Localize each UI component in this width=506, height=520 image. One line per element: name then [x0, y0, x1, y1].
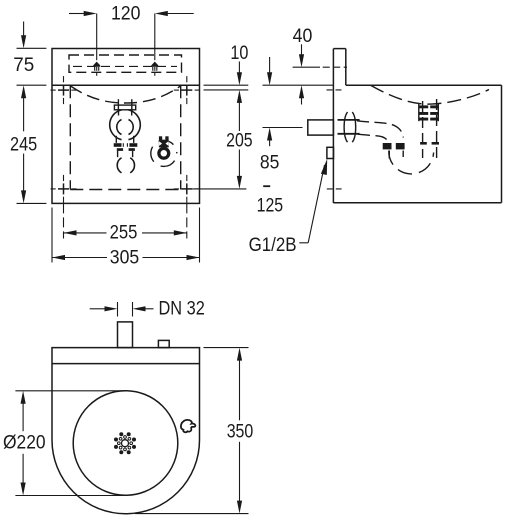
dimension DN32: arrows: [90, 308, 105, 310]
front view: inlet valve top body filled: [159, 136, 162, 140]
dimension 205: lower line and arrow: [238, 150, 240, 177]
side view: trap inlet lower hidden curve: [358, 134, 390, 146]
svg-text:10: 10: [230, 43, 248, 64]
front view: trap bottom arcs: [117, 158, 134, 173]
bottom view: bowl circle Ø220: [73, 391, 178, 496]
front view: drain pipe sides through trap circle: [118, 111, 120, 119]
front view: left anchor screw symbol: [96, 14, 98, 61]
dimension 85-125: arrow down to rim: [269, 57, 271, 73]
front view: mounting hole cross at (63.5,188.9): [58, 188, 69, 190]
front view: apron/rim horizontal edge: [52, 84, 200, 86]
dimension 245: extension line bottom: [17, 202, 47, 204]
dimension 10: extension lines: [204, 84, 249, 86]
front view: drain flange bolts filled: [114, 143, 122, 147]
dimension 75: extension line top: [17, 47, 47, 49]
label G1/2B: leader line with arrow: [299, 242, 308, 244]
dimension 40: extension line at hole: [293, 66, 320, 68]
dimension 85-125: pipe axis extension line: [263, 127, 303, 129]
dimension 350: extension lines: [204, 347, 249, 349]
dimension Ø220: extension lines: [15, 390, 126, 392]
svg-text:245: 245: [10, 135, 37, 156]
side view: trap elbow nut blocks: [383, 143, 392, 149]
dimension 255: dimension line with arrows: [64, 230, 77, 235]
dimension 85-125: arrow up to pipe axis: [267, 128, 272, 141]
front view: basin outer body rectangle: [52, 49, 200, 204]
front view: mounting hole cross at (63.5,90.1): [58, 89, 69, 91]
dimension 255: extension dashed lines: [63, 203, 65, 238]
side view: trap elbow down stubs: [388, 151, 390, 159]
dimension 120: dimension line with inward arrows: [69, 13, 84, 15]
svg-text:40: 40: [293, 26, 313, 47]
front view: mounting bracket hidden rectangle: [69, 55, 182, 72]
front view: bowl front curve hidden: [71, 86, 181, 103]
svg-text:350: 350: [227, 421, 254, 442]
svg-text:205: 205: [226, 131, 253, 152]
side view: tailpipe lower nut bars: [420, 142, 427, 145]
dimension 75/245: shared extension line at rim: [17, 84, 47, 86]
svg-text:255: 255: [110, 223, 138, 244]
front view: bowl hidden outline left: [69, 85, 71, 189]
front view: drain flange hidden rect: [114, 105, 135, 110]
side view: supply pipe rectangle: [308, 120, 334, 135]
front view: bracket screw center line: [73, 65, 177, 67]
dimension 305: extension lines: [51, 208, 53, 263]
dimension 205: extension line bottom: [192, 188, 246, 190]
front view: bowl hidden outline right: [180, 85, 182, 189]
bottom view: overflow notch: [158, 340, 169, 347]
side view: body right edge: [501, 85, 503, 203]
side view: trap U-bend hidden arc: [389, 151, 434, 174]
front view: drain trap large circle: [110, 110, 141, 141]
dimension 10: arrow down to rim extension: [238, 62, 240, 73]
side view: pipe flange hidden ellipse: [344, 112, 356, 142]
front view: mounting hole cross at (186.8,90.1): [181, 89, 192, 91]
svg-text:125: 125: [257, 195, 284, 216]
side view: bowl bottom hidden curve: [371, 86, 489, 105]
dimension 350: lower line and arrow: [239, 442, 241, 501]
bottom view: rim line: [52, 363, 200, 365]
svg-text:120: 120: [111, 3, 141, 24]
bottom view: drain outlet pipe DN32: [118, 322, 133, 348]
dimension 40: arrow up: [299, 85, 304, 98]
side view: wall hole hidden marks: [323, 66, 347, 68]
dimension 245: dimension line upper segment with arrow: [21, 85, 26, 98]
side view: tailpipe nut rib bars: [419, 105, 428, 108]
svg-text:85: 85: [260, 153, 280, 174]
front view: inlet valve hidden circle: [151, 140, 177, 166]
front view: drain pipe top hidden stubs: [117, 99, 119, 105]
side view: body top edge: [346, 84, 502, 86]
dimension 245: dimension line lower segment with arrow: [23, 154, 25, 191]
dimension 85-125: hyphen: [263, 185, 270, 187]
svg-text:Ø220: Ø220: [3, 433, 46, 454]
front view: bowl hidden outline bottom: [70, 189, 180, 191]
front view: drain trap inner arcs: [117, 120, 133, 135]
side view: mounting tab top and right: [333, 48, 345, 50]
dimension 305: dimension line with arrows: [52, 255, 65, 260]
dimension 205: upper arrow and line: [237, 90, 242, 103]
side view: body bottom edge: [333, 202, 501, 204]
svg-text:305: 305: [110, 248, 139, 269]
dimension Ø220: lower line and arrow: [22, 454, 24, 483]
front view: drain tailpipe stubs: [117, 151, 119, 157]
front view: drain lower bolt bars: [117, 148, 123, 151]
side view: tailpipe nut side lines: [418, 104, 420, 121]
front view: inlet valve thick ring: [159, 148, 169, 158]
side view: pipe lines through flange: [338, 119, 360, 121]
side view: trap inlet upper hidden curve: [357, 121, 403, 138]
dimension 350: upper arrow and line: [237, 348, 242, 361]
side view: wall back line: [332, 49, 334, 203]
side view: G1/2B wall fitting: [327, 147, 334, 158]
front view: right anchor screw symbol: [154, 14, 156, 61]
dimension 75: arrow down: [23, 22, 25, 37]
front view: drain body hidden sides: [115, 136, 117, 143]
svg-text:75: 75: [13, 55, 34, 76]
svg-text:DN 32: DN 32: [159, 299, 205, 320]
bottom view: drain strainer hole pattern: [114, 432, 136, 454]
dimension 40: arrow down: [301, 44, 303, 54]
dimension Ø220: upper arrow and line: [21, 391, 26, 404]
side view: rim extension line left: [263, 84, 334, 86]
side view: drain tailpipe hidden lines: [422, 101, 424, 158]
front view: mounting hole cross at (186.8,188.9): [181, 188, 192, 190]
dimension DN32: tick extension lines: [117, 302, 119, 317]
svg-text:G1/2B: G1/2B: [249, 235, 297, 256]
bottom view: basin outline (rect + semicircle): [52, 348, 200, 514]
bottom view: tap hole symbol: [181, 420, 196, 432]
